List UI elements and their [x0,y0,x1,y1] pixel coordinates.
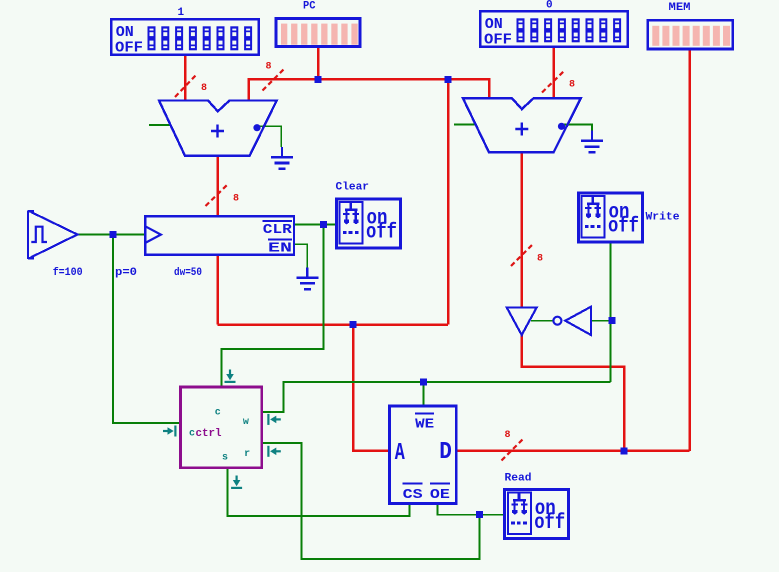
svg-text:8: 8 [537,254,543,265]
svg-text:Read: Read [505,473,532,485]
wire bus DIP1 to adder1 [184,55,187,101]
svg-text:WE: WE [415,417,434,433]
svg-text:8: 8 [201,83,207,94]
switch Clear [336,182,401,249]
wire bus adder2 out to tri-state [520,152,523,307]
wire bus middle bus to RAM A [353,325,390,451]
switch Read [505,473,569,539]
svg-text:Write: Write [646,212,680,224]
wire clock to register [77,234,145,236]
adder U2 [463,98,581,152]
adder U1 [159,101,277,156]
svg-text:w: w [243,417,249,428]
svg-text:Clear: Clear [336,182,370,194]
svg-text:c: c [189,429,195,440]
bus width marker adder2 out [511,245,543,266]
tri-state buffer [507,307,537,335]
junction node data bus [621,447,628,454]
DIP switch 0 [480,0,628,49]
svg-text:f=100: f=100 [53,267,83,279]
svg-text:r: r [244,449,250,460]
wire register CLR to Clear switch [294,224,335,226]
pin arrow ctrl r [267,446,281,457]
wire ctrl s to RAM CS [227,468,409,516]
DIP switch 1 [111,7,259,57]
wire bus tri-state out to data bus [522,335,624,451]
wire top bus PC node to both adders [249,79,490,100]
bus width marker top bus [263,62,284,91]
wire register EN to ground [294,244,307,267]
pin arrow ctrl top [225,370,236,384]
wire write line to ctrl w [262,382,611,412]
svg-text:A: A [395,440,405,467]
wire write line to RAM WE [423,382,425,406]
wire adder2 carry-in stub [454,123,475,125]
wire RAM OE to Read switch [438,503,504,514]
ground adder2 [581,131,603,154]
junction node read [476,511,483,518]
svg-text:1: 1 [178,7,185,19]
bus width marker register in [206,185,240,206]
controller ctrl [181,387,262,468]
svg-text:EN: EN [268,241,292,257]
wire adder1 carry-in stub [149,124,171,126]
pin arrow ctrl w [267,414,281,425]
probe display PC [276,1,360,47]
junction node clear [320,221,327,228]
probe display MEM [648,2,733,49]
wire bus DIP0 to adder2 [552,48,555,98]
wire bus adder1 out to register [216,156,219,217]
RAM [390,406,457,503]
bus width marker DIP0 [542,72,575,93]
junction node clock [110,231,117,238]
ground adder1 [271,147,293,170]
wire data bus RAM D to MEM column [456,450,689,453]
wire clock to ctrl c [113,235,181,424]
svg-text:s: s [222,453,228,464]
svg-text:8: 8 [505,430,511,441]
wire inverter out to tri-state enable [531,320,553,322]
wire ctrl r loop to read node [262,443,480,559]
wire inverter input [591,320,610,322]
wire adder2 carry-out to ground [563,124,592,131]
junction node top bus at PC [315,76,322,83]
wire bus register out to middle bus [216,255,219,325]
switch Write [579,193,680,242]
wire bus MEM column [688,50,691,451]
wire middle bus [218,323,449,326]
junction node write line at WE [420,378,427,385]
svg-text:8: 8 [266,62,272,73]
wire bus PC to top bus [317,48,320,80]
svg-text:8: 8 [569,80,575,91]
wire adder1 carry-out to ground [259,126,281,147]
bus width marker DIP1 [175,76,207,98]
svg-text:c: c [215,408,221,419]
pin arrow ctrl bottom [231,476,242,490]
svg-text:0: 0 [546,0,553,12]
ground register EN [296,267,318,290]
register [115,216,294,279]
svg-text:MEM: MEM [669,2,691,14]
inverter [553,307,591,335]
svg-text:8: 8 [233,194,239,205]
bus width marker RAM D [502,430,523,461]
junction node top bus at drop [445,76,452,83]
svg-text:CS: CS [403,487,423,503]
clock source f=100 [28,211,83,280]
wire Clear branch to ctrl top [222,225,324,388]
svg-text:dw=50: dw=50 [174,267,202,279]
wire bus drop from top bus to middle bus [447,79,450,324]
svg-text:p=0: p=0 [115,267,137,279]
svg-text:CLR: CLR [263,222,293,238]
svg-text:OE: OE [430,487,450,503]
wire Write switch down [610,243,612,382]
svg-text:ctrl: ctrl [196,428,222,440]
junction node middle bus [350,321,357,328]
svg-text:D: D [439,439,452,466]
svg-text:PC: PC [303,1,316,13]
junction node write line at inverter [608,317,615,324]
pin arrow ctrl left [163,426,177,437]
